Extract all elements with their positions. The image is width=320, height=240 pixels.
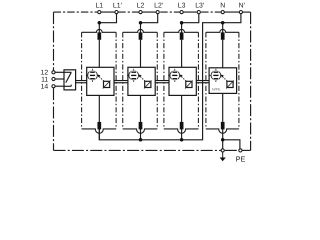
module M1 outline (plug-in module, dash-dot) <box>82 29 117 32</box>
wire: module 2 bottom exit to bus <box>140 129 142 140</box>
wire: terminal drop into module 4 <box>222 23 224 33</box>
protective element box (varistor with disconnector) module 3 <box>169 67 196 95</box>
svg-text:11: 11 <box>41 76 48 83</box>
device enclosure border (dash-dot), top side with terminal gaps <box>54 11 98 13</box>
module M2 outline (plug-in module, dash-dot) <box>123 29 158 32</box>
plug contact (bottom) module 1 <box>97 122 101 129</box>
module M3 outline (plug-in module, dash-dot) <box>164 29 199 32</box>
plug contact (top) module 1 <box>97 32 101 39</box>
changeover switch box <box>64 70 76 90</box>
module M4 outline (plug-in module, dash-dot) <box>206 29 239 32</box>
wire: contact to element box module 4 <box>222 40 224 68</box>
svg-text:L1′: L1′ <box>113 3 123 10</box>
protective element box (varistor with disconnector) module 2 <box>128 67 155 95</box>
wire: L1' branch down to node <box>99 12 116 23</box>
wire: terminal drop into module 1 <box>98 23 100 33</box>
enclosure border bottom side <box>54 149 221 151</box>
svg-text:N′: N′ <box>239 3 246 10</box>
varistor symbol module 1 <box>103 81 111 89</box>
wire: N module bottom to PE terminals <box>223 140 240 151</box>
svg-text:L3′: L3′ <box>195 3 205 10</box>
plug contact (bottom) module 2 <box>139 122 143 129</box>
wire: element box to bottom contact module 3 <box>181 95 183 122</box>
wire: L2' branch down to node <box>141 12 158 23</box>
plug contact (top) module 2 <box>139 32 143 39</box>
enclosure border left side <box>53 12 55 70</box>
varistor symbol module 3 <box>185 81 193 89</box>
status indicator (thermal disconnector display) module 4 <box>209 69 222 82</box>
wire: terminal drop into module 2 <box>140 23 142 33</box>
svg-text:L2′: L2′ <box>154 3 164 10</box>
wire: element box to bottom contact module 1 <box>98 95 100 122</box>
actuating arrow (disconnector to indicator) module 4 <box>221 75 228 82</box>
terminals L1 L1' L2 L2' L3 L3' N N' <box>98 11 101 14</box>
status indicator (thermal disconnector display) module 3 <box>168 69 181 82</box>
svg-text:L2: L2 <box>137 3 145 10</box>
wire: module 1 bottom exit to bus <box>98 129 100 140</box>
varistor symbol module 2 <box>144 81 152 89</box>
ground arrow <box>222 152 224 158</box>
changeover contact symbol <box>64 72 71 86</box>
svg-text:L3: L3 <box>178 3 186 10</box>
mechanical linkage remote contact to modules (double line) <box>76 80 87 82</box>
plug contact (top) module 3 <box>180 32 184 39</box>
wire: contact to element box module 3 <box>181 40 183 68</box>
wire: L2 to L2' terminal link <box>141 11 158 13</box>
protective element box (varistor with disconnector) module 4 <box>209 68 237 94</box>
wire: L1 to L1' terminal link <box>99 11 116 13</box>
wire: element box to bottom contact module 4 <box>222 93 224 122</box>
wire: module 3 bottom exit to bus <box>181 129 183 140</box>
wire: terminal drop into module 3 <box>181 23 183 33</box>
terminal PE <box>239 149 242 152</box>
status indicator (thermal disconnector display) module 1 <box>86 69 99 82</box>
protective element box (varistor with disconnector) module 1 <box>87 67 114 95</box>
terminal ground side <box>221 149 224 152</box>
plug contact (bottom) module 3 <box>180 122 184 129</box>
svg-text:PE: PE <box>236 155 246 164</box>
wire: module 4 bottom exit to bus <box>222 129 224 140</box>
plug contact (bottom) module 4 <box>221 122 225 129</box>
plug contact (top) module 4 <box>221 32 225 39</box>
svg-text:N: N <box>220 3 225 10</box>
actuating arrow (disconnector to indicator) module 3 <box>180 75 187 82</box>
remote signalling changeover contact terminals 12/11/14 <box>54 71 65 73</box>
wire: element box to bottom contact module 2 <box>140 95 142 122</box>
junction nodes (top) <box>98 21 102 25</box>
wire: L3' branch down to node <box>182 12 199 23</box>
wire: contact to element box module 2 <box>140 40 142 68</box>
enclosure border right side <box>250 12 252 150</box>
wire: N to N' terminal link <box>223 11 241 13</box>
status indicator (thermal disconnector display) module 2 <box>127 69 140 82</box>
wire: L3 to L3' terminal link <box>182 11 199 13</box>
varistor symbol module 4 <box>226 81 234 89</box>
actuating arrow (disconnector to indicator) module 2 <box>139 75 146 82</box>
wire: contact to element box module 1 <box>98 40 100 68</box>
svg-text:14: 14 <box>41 84 49 91</box>
svg-text:L1: L1 <box>95 3 103 10</box>
wire: common bus of L1,L2,L3 varistors up to N node (3+1 circuit) <box>99 23 222 140</box>
svg-text:N/PE: N/PE <box>212 88 221 92</box>
actuating arrow (disconnector to indicator) module 1 <box>97 75 104 82</box>
wire: N' branch down to node <box>223 12 241 23</box>
junction nodes (bottom bus) <box>139 138 143 142</box>
